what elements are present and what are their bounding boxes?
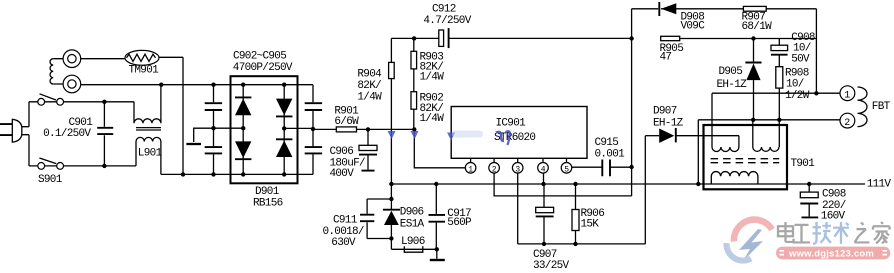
inductor L901 top winding [134, 85, 161, 124]
node C901 bottom [102, 164, 106, 168]
svg-text:0.1/250V: 0.1/250V [43, 128, 91, 140]
svg-text:82K/: 82K/ [357, 80, 381, 92]
capacitor C911 [360, 215, 374, 222]
inductor L901 core [136, 128, 161, 130]
node bridge right top [282, 83, 286, 87]
wire C911 bottom [367, 222, 391, 238]
capacitor C904 (right top) [305, 85, 322, 147]
node right caps mid [311, 127, 315, 131]
wire pin5 to C915 [572, 166, 632, 168]
wire C915 node riser [631, 9, 633, 167]
watermark logo red swoosh [734, 220, 772, 242]
diode D901d (right bottom, points up) [276, 139, 292, 157]
svg-text:400V: 400V [330, 168, 355, 180]
wire FBT pin1 line [712, 93, 840, 136]
diode D905 [745, 39, 761, 120]
svg-text:EH-1Z: EH-1Z [653, 117, 684, 129]
node C907 bottom [542, 242, 546, 246]
node D905 top [751, 36, 755, 40]
transformer T901 secondary winding [711, 172, 758, 184]
node TM901 riser joins bottom rail [181, 172, 185, 176]
svg-text:2: 2 [844, 118, 850, 129]
op-amp IC901 box [451, 107, 587, 159]
node C906 top [366, 127, 370, 131]
capacitor C912 [439, 28, 449, 48]
resistor R907 [743, 6, 766, 11]
AC plug P901 [0, 119, 22, 142]
switch S901 top pole [29, 94, 63, 105]
posistor TM901 [125, 50, 159, 65]
capacitor C908 (10/50V) [771, 39, 788, 67]
FBT brace [858, 87, 868, 127]
svg-text:D901: D901 [255, 186, 280, 198]
chassis ground left [186, 128, 213, 144]
wire FBT pin2 line [698, 120, 840, 184]
svg-text:IC901: IC901 [496, 118, 527, 130]
diode D901c (right top, points down) [276, 99, 292, 117]
svg-text:D905: D905 [719, 66, 743, 78]
capacitor C906 [359, 129, 377, 170]
node C908b top [807, 182, 811, 186]
svg-text:4.7/250V: 4.7/250V [423, 15, 471, 27]
svg-text:www.dgjs123.com: www.dgjs123.com [788, 248, 874, 259]
switch S901 bottom pole [29, 158, 63, 169]
svg-text:1: 1 [468, 165, 473, 174]
wire bridge left column [242, 85, 244, 175]
svg-text:3: 3 [515, 165, 520, 174]
wire pin3 to bottom rail [518, 173, 646, 244]
svg-text:FBT: FBT [872, 101, 891, 113]
wire pin1 link [414, 129, 465, 167]
svg-text:50V: 50V [791, 53, 810, 65]
diode D901a (left top, points up) [235, 97, 251, 115]
svg-text:C912: C912 [432, 4, 456, 16]
node snubber top [389, 182, 393, 186]
pin 1 [465, 158, 476, 174]
FBT pin 1 [840, 86, 855, 102]
svg-text:C902~C905: C902~C905 [233, 50, 286, 62]
resistor R902 [411, 92, 417, 110]
diode D906 [383, 199, 400, 239]
FBT pin 2 [840, 113, 855, 129]
svg-text:4700P/250V: 4700P/250V [233, 62, 293, 74]
svg-text:0.0018/: 0.0018/ [323, 226, 364, 238]
capacitor C901 [97, 102, 113, 166]
node C911 D906 junction [389, 236, 393, 240]
svg-text:ES1A: ES1A [400, 219, 425, 231]
watermark char jia [873, 222, 890, 243]
wire snubber left branch [367, 199, 391, 214]
pin 3 [512, 158, 523, 174]
diode D908 [659, 2, 676, 16]
wire bridge right column [283, 85, 285, 175]
resistor R906 [572, 184, 579, 244]
node C917 top [434, 182, 438, 186]
diode D907 [645, 128, 739, 143]
wire R903 R902 column [413, 38, 415, 129]
transformer T901 box [704, 125, 788, 189]
wire to L906 [391, 239, 436, 250]
svg-text:10/: 10/ [786, 79, 804, 91]
node bridge left mid [241, 126, 245, 130]
wire left mid rail [214, 127, 244, 129]
capacitor C903 (left bottom) [205, 147, 222, 174]
watermark char dian [778, 222, 794, 242]
node pin4 rail [541, 182, 545, 186]
capacitor C902 (left top) [205, 85, 222, 147]
node R907 line end [814, 91, 818, 95]
node D906 anode top [389, 197, 393, 201]
wire B+ rail [313, 128, 414, 130]
transformer T901 primary winding 2 [753, 120, 779, 152]
watermark logo pale arc [726, 243, 751, 261]
resistor R903 [411, 51, 417, 69]
node L906 C917 ground junction [435, 247, 439, 251]
capacitor C907 [536, 184, 554, 244]
degaussing coil [50, 59, 63, 84]
capacitor C917 [429, 184, 446, 249]
wire top switch line [64, 101, 135, 103]
svg-text:1/4W: 1/4W [357, 92, 382, 104]
watermark char zhi [855, 222, 870, 242]
wire bottom rail to bridge [161, 173, 313, 175]
blue watermark smear [452, 131, 483, 138]
svg-text:5: 5 [564, 165, 569, 174]
svg-text:1: 1 [844, 91, 850, 102]
svg-text:C911: C911 [333, 214, 358, 226]
svg-text:6/6W: 6/6W [334, 116, 359, 128]
wire C912 line [391, 37, 631, 39]
watermark url pill [776, 247, 890, 260]
blue watermark glyphs over STR [496, 131, 510, 145]
pin 2 [489, 158, 500, 174]
capacitor C908 (220/160V) [800, 184, 818, 217]
resistor R908 [776, 67, 783, 147]
bridge rectifier D901 box [231, 76, 298, 183]
wire plug leads and risers [22, 102, 29, 166]
node R906 bottom [573, 242, 577, 246]
wire bottom switch line [64, 165, 137, 167]
node B+ rail end [412, 127, 416, 131]
blue watermark arrow 2 [411, 131, 419, 139]
node bridge right bottom [282, 172, 286, 176]
node bridge right mid [282, 126, 286, 130]
node left caps top [211, 83, 215, 87]
svg-text:1/4W: 1/4W [420, 71, 445, 83]
svg-text:111V: 111V [867, 178, 892, 190]
svg-text:15K: 15K [581, 219, 600, 231]
watermark char shu [833, 222, 849, 244]
watermark pill end dashes [780, 251, 888, 255]
watermark logo blue bolt [739, 229, 763, 261]
svg-text:T901: T901 [791, 158, 816, 170]
pin 5 [561, 158, 572, 174]
svg-text:1/2W: 1/2W [785, 90, 810, 102]
node R908 winding junction [777, 118, 781, 122]
svg-text:560P: 560P [447, 217, 472, 229]
blue watermark arrow 3 [447, 133, 455, 141]
svg-text:V09C: V09C [681, 21, 706, 33]
svg-text:68/1W: 68/1W [742, 21, 773, 33]
svg-text:EH-1Z: EH-1Z [717, 79, 748, 91]
svg-text:RB156: RB156 [253, 197, 283, 209]
blue watermark arrow 1 [388, 131, 396, 139]
diode D901b (left bottom, points down) [235, 141, 251, 159]
node C915 right [629, 165, 633, 169]
transformer T901 core dashes [711, 159, 780, 163]
wire pin4 stem [543, 173, 545, 184]
degauss connector top [63, 50, 81, 68]
inductor L901 bottom winding [136, 137, 161, 174]
svg-text:L901: L901 [138, 147, 163, 159]
svg-text:1/4W: 1/4W [420, 113, 445, 125]
svg-text:C906: C906 [330, 146, 354, 158]
watermark char ji [813, 222, 832, 244]
wire right mid rail [284, 127, 313, 129]
svg-text:D907: D907 [653, 106, 677, 118]
capacitor C915 [602, 160, 610, 177]
wire startup line right [680, 38, 817, 40]
wire TM901 to right riser [159, 57, 183, 174]
node R903 top [412, 36, 416, 40]
node D905 anode junction [751, 118, 755, 122]
ground symbol [430, 249, 445, 260]
degauss connector bottom [63, 75, 81, 93]
resistor R905 [661, 36, 680, 40]
inductor L906 [404, 246, 423, 252]
svg-text:S901: S901 [38, 174, 63, 186]
svg-text:C915: C915 [595, 137, 619, 149]
svg-text:C908: C908 [822, 189, 846, 201]
pin 4 [538, 158, 549, 174]
wire degauss top line [81, 58, 126, 60]
wire R904 branch [390, 38, 392, 199]
node C901 top [102, 100, 106, 104]
svg-text:L906: L906 [401, 236, 425, 248]
node degauss line to L901 [159, 83, 163, 87]
svg-text:47: 47 [660, 52, 672, 64]
wire top feedback line [632, 9, 817, 94]
resistor R901 [336, 127, 356, 132]
node bridge left top [241, 83, 245, 87]
node bridge left bottom [241, 172, 245, 176]
wire degauss bottom line [81, 84, 313, 86]
svg-text:0.001: 0.001 [595, 148, 626, 160]
watermark char gong [793, 225, 810, 243]
svg-text:33/25V: 33/25V [533, 260, 570, 272]
svg-text:D906: D906 [400, 207, 424, 219]
svg-text:TM901: TM901 [129, 65, 160, 77]
resistor R904 [389, 62, 395, 78]
svg-text:4: 4 [541, 165, 546, 174]
svg-text:160V: 160V [821, 211, 846, 223]
wire output rail 111V [391, 183, 865, 185]
node left caps bottom [211, 172, 215, 176]
svg-text:630V: 630V [331, 237, 356, 249]
node R906 rail [573, 182, 577, 186]
transformer T901 primary winding 1 [712, 136, 739, 152]
node left caps mid [211, 126, 215, 130]
node startup line junction [629, 36, 633, 40]
wire D907 branch to bottom rail [644, 136, 646, 244]
wire pin2 wrap to C915 node [494, 167, 631, 196]
node secondary left junction [696, 182, 700, 186]
capacitor C905 (right bottom) [305, 147, 322, 174]
svg-text:R904: R904 [357, 68, 382, 80]
svg-text:2: 2 [492, 165, 497, 174]
